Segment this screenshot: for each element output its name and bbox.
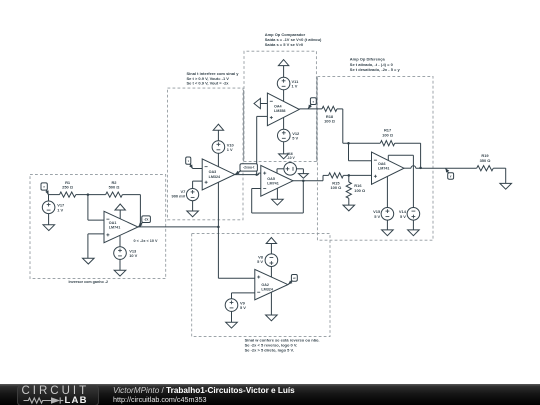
voltage source V7 900 mV — [172, 181, 199, 211]
ground at OA1 + input — [83, 258, 95, 264]
small ground right of V16 — [299, 174, 309, 179]
svg-text:900 mV: 900 mV — [172, 194, 186, 199]
svg-text:OA1: OA1 — [109, 221, 117, 225]
wire OA3 bottom rail down — [217, 182, 219, 227]
resistor R17 — [380, 128, 394, 146]
svg-text:100 Ω: 100 Ω — [324, 119, 335, 124]
wire down to OA6 inverting input — [349, 143, 372, 161]
svg-text:500 Ω: 500 Ω — [109, 185, 120, 190]
svg-text:5 V: 5 V — [400, 214, 406, 219]
ground under V9 — [226, 322, 238, 328]
ground under V14 — [408, 230, 420, 236]
svg-text:5 V: 5 V — [374, 214, 380, 219]
svg-text:OA2: OA2 — [261, 283, 269, 287]
svg-text:LM324: LM324 — [261, 288, 273, 292]
junction dot OA1 output / OA3 rail — [217, 226, 220, 229]
resistor R19 — [477, 153, 494, 171]
CircuitLab logo resistor+diode symbol — [0, 384, 110, 405]
ground under V17 — [43, 225, 55, 231]
footer url — [113, 395, 206, 404]
svg-text:y: y — [450, 174, 452, 178]
note: Sinal w confere — [245, 338, 320, 353]
wire junction down to OA1 inverting input — [88, 195, 104, 221]
ground under V15 — [382, 230, 394, 236]
wire OA1 output — [138, 226, 218, 228]
junction dot OA6 output / R17 — [419, 167, 422, 170]
voltage source V12 5 V — [278, 118, 301, 154]
CircuitLab logo text CIRCUIT — [22, 385, 102, 397]
svg-text:Inversor com ganho -2: Inversor com ganho -2 — [69, 280, 109, 284]
power arrow above V10 — [213, 124, 223, 130]
svg-text:OA4: OA4 — [274, 105, 283, 109]
annotation box: comparator stage — [244, 51, 316, 161]
op-amp OA5 LM741 — [261, 165, 293, 196]
svg-text:OA3: OA3 — [209, 170, 217, 174]
wire OA3 output — [235, 174, 259, 176]
svg-text:1 V: 1 V — [57, 207, 63, 212]
note: 0 < -2x < 10 V — [134, 239, 159, 243]
CircuitLab logo panel — [17, 385, 99, 405]
svg-text:5 V: 5 V — [240, 305, 246, 310]
svg-text:LM324: LM324 — [209, 175, 221, 179]
svg-text:Se -2x > 5 direto, logo 5 V.: Se -2x > 5 direto, logo 5 V. — [245, 347, 294, 352]
resistor R16 — [346, 175, 365, 205]
node flag x — [41, 183, 49, 195]
label V16 -10 V — [287, 152, 296, 160]
wire R2 to OA1 output — [122, 195, 140, 227]
svg-text:100 Ω: 100 Ω — [330, 185, 341, 190]
op-amp OA3 LM324 — [202, 159, 235, 190]
wire to R19 — [445, 167, 477, 169]
junction dot OA3 output / OA4 + branch — [255, 173, 258, 176]
wire OA4 + input branch down to OA3 output — [256, 116, 258, 174]
svg-text:-2x: -2x — [144, 217, 149, 221]
voltage source V17 1 V — [42, 195, 65, 225]
voltage source V9 5 V — [225, 299, 246, 322]
svg-text:Se t desativado, -2x - 5 = y: Se t desativado, -2x - 5 = y — [350, 67, 401, 72]
svg-text:350 Ω: 350 Ω — [480, 158, 491, 163]
ground under OA5 — [272, 188, 284, 205]
node flag -2x — [139, 216, 151, 227]
wire V7 to OA3 + input — [193, 180, 203, 182]
voltage source V13 10 V — [114, 236, 138, 271]
svg-text:LM358: LM358 — [274, 109, 285, 113]
overlapping box edges (left) — [243, 90, 245, 161]
wire OA4 output — [299, 108, 322, 110]
node flag w — [288, 275, 297, 285]
voltage source V15 5 V — [373, 208, 394, 230]
ground after R19 — [500, 183, 512, 189]
junction dot R18/R17/OA6- — [347, 142, 350, 145]
op-amp OA4 LM358 — [267, 93, 299, 126]
overlapping box edges (right) — [316, 77, 318, 161]
input arrow at OA4 inverting input — [254, 98, 267, 108]
svg-text:LM741: LM741 — [378, 167, 389, 171]
resistor R2 — [106, 180, 123, 197]
resistor R15 — [329, 173, 344, 190]
svg-text:-10 V: -10 V — [287, 156, 296, 160]
svg-text:100 Ω: 100 Ω — [354, 188, 365, 193]
svg-text:-2xou-t: -2xou-t — [243, 166, 255, 170]
svg-text:OA5: OA5 — [267, 177, 275, 181]
wire OA6 V- to V15 — [386, 176, 388, 207]
voltage source V8 5 V — [257, 244, 278, 278]
wire R17 to output — [395, 143, 421, 168]
ground under V7 — [187, 211, 199, 217]
voltage source V16 (series, horizontal) — [277, 163, 303, 176]
svg-text:Saída s = 5 V se V>0: Saída s = 5 V se V>0 — [265, 42, 304, 47]
voltage source V11 1 V — [277, 66, 299, 102]
resistor R18 — [322, 106, 337, 123]
wire junction to R2 — [88, 194, 106, 196]
wire OA6 V+ routed to V14 — [388, 155, 413, 207]
junction dot R15/R16 — [348, 174, 351, 177]
svg-text:250 Ω: 250 Ω — [62, 185, 73, 190]
node flag t — [186, 157, 193, 169]
resistor R1 — [60, 180, 76, 197]
voltage source V10 1 V — [212, 130, 234, 166]
svg-text:5 V: 5 V — [257, 259, 263, 264]
op-amp OA1 LM741 — [104, 211, 138, 242]
annotation box: signal t stage — [168, 88, 244, 220]
wire R15 to OA6 + input — [343, 174, 371, 176]
junction dot OA5 feedback — [302, 180, 305, 183]
annotation box: reverse check stage — [192, 233, 330, 336]
node flag s — [308, 98, 316, 109]
wire R19 to ground — [493, 168, 505, 183]
svg-text:5 V: 5 V — [292, 136, 298, 141]
wire R18 to R17 rail — [337, 109, 380, 143]
svg-text:1 V: 1 V — [227, 147, 233, 152]
svg-text:1 V: 1 V — [292, 84, 298, 89]
svg-text:LM741: LM741 — [109, 225, 120, 229]
power arrow above OA1 — [115, 204, 125, 219]
svg-text:x: x — [43, 185, 45, 189]
node flag y — [446, 168, 454, 179]
wire OA1 + input to ground — [88, 234, 104, 258]
wire into OA5 + input — [259, 173, 261, 175]
op-amp OA2 LM324 — [255, 269, 288, 299]
wire t to OA3 inverting input — [193, 168, 203, 170]
wire jog up to R15 — [323, 175, 329, 180]
svg-text:t: t — [188, 159, 189, 163]
wire x-node to R1 — [48, 194, 59, 196]
wire OA4 + input — [257, 115, 268, 117]
ground under OA2 — [266, 292, 278, 321]
power arrow above V11 — [278, 60, 288, 66]
svg-text:s: s — [312, 99, 314, 103]
down arrow V16 under V12 — [279, 154, 289, 159]
power arrow above V8 — [266, 238, 276, 244]
node flag -2xou-t — [235, 164, 257, 175]
annotation box: difference amp stage — [317, 76, 433, 240]
wire OA6 output with hop — [404, 166, 445, 168]
voltage source V14 5 V — [399, 208, 420, 230]
op-amp OA6 LM741 — [372, 152, 405, 184]
svg-text:100 Ω: 100 Ω — [382, 132, 393, 137]
feedback loop OA5 — [252, 181, 304, 213]
wire R1 to junction — [76, 194, 88, 196]
caption Inversor com ganho -2 — [69, 280, 109, 284]
svg-text:0 < -2x < 10 V: 0 < -2x < 10 V — [134, 239, 159, 243]
ground under R16 — [343, 205, 355, 211]
ground under V13 — [114, 270, 126, 276]
svg-text:Se t < 0.9 V, Vout = -2x: Se t < 0.9 V, Vout = -2x — [187, 81, 230, 86]
note: Amp Op Diferença — [350, 57, 401, 72]
svg-text:w: w — [292, 276, 296, 280]
svg-text:OA6: OA6 — [378, 162, 386, 166]
wire rail down to OA2 + input — [218, 227, 254, 278]
note: Sinal t interfere — [187, 71, 240, 85]
svg-text:LM741: LM741 — [267, 181, 278, 185]
footer title — [113, 386, 295, 395]
wire OA2 - input to V9 — [232, 293, 255, 299]
note: Amp Op Comparador — [265, 32, 322, 47]
annotation box: inverter stage — [30, 175, 166, 279]
node junction R1/R2/OA1- — [87, 193, 90, 196]
svg-text:10 V: 10 V — [129, 253, 137, 258]
wire OA5 output — [293, 180, 323, 182]
